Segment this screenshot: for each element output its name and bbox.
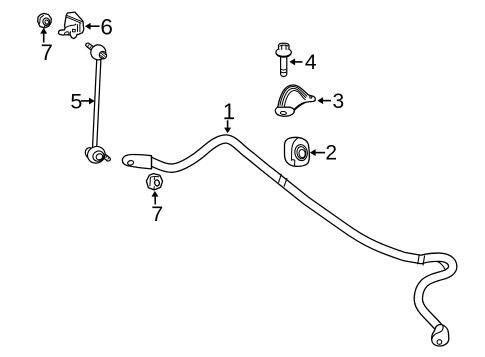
leader arrow for 3 — [317, 97, 331, 104]
svg-text:6: 6 — [100, 15, 113, 40]
link 5 top ball joint — [86, 43, 108, 60]
bracket 3 — [275, 85, 315, 116]
leader arrow for 6 — [85, 23, 100, 30]
leader arrow for 5 — [81, 98, 95, 105]
svg-text:5: 5 — [70, 90, 82, 114]
nut 7 (lower, on bar) — [146, 174, 162, 190]
leader arrow for 7 lower — [151, 191, 158, 205]
stabilizer bar 1 (tube body) — [151, 139, 453, 326]
bar seam near left eyelet — [151, 156, 153, 169]
bar seam right (sleeve band) — [418, 254, 425, 265]
label 1 — [223, 99, 235, 124]
bar seam mid (sleeve band) — [279, 174, 288, 187]
bushing 2 — [284, 137, 309, 166]
leader arrow for 1 — [224, 120, 231, 133]
bracket 6 (upper left) — [59, 12, 84, 38]
svg-text:1: 1 — [223, 99, 235, 124]
stabilizer bar left eyelet end — [122, 155, 151, 169]
svg-text:2: 2 — [325, 142, 337, 165]
link rod 5 — [95, 58, 99, 149]
leader arrow for 4 — [289, 58, 302, 65]
svg-text:4: 4 — [305, 51, 317, 74]
svg-text:7: 7 — [151, 202, 163, 226]
svg-text:3: 3 — [332, 90, 344, 113]
stabilizer bar right eyelet end — [432, 325, 449, 346]
leader arrow for 2 — [310, 149, 325, 156]
bolt 4 — [276, 43, 291, 76]
nut 7 (upper left) — [38, 13, 52, 28]
svg-text:7: 7 — [41, 40, 53, 65]
leader arrow for 7 upper — [40, 28, 47, 43]
link 5 bottom ball joint — [84, 144, 111, 166]
hairpin inner bend line — [437, 261, 445, 270]
